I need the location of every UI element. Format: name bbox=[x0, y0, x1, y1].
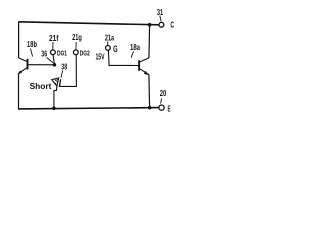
IGBT 18b bar bbox=[27, 59, 29, 70]
svg-text:18b: 18b bbox=[27, 39, 37, 49]
terminal DG1 circle (21f) bbox=[51, 50, 56, 55]
wire node 36 up to terminal DG1 bbox=[53, 55, 54, 65]
node junction dot on emitter rail left bbox=[52, 107, 56, 111]
terminal E circle bbox=[159, 105, 164, 110]
wire base of 18b to node 36 bbox=[28, 64, 54, 66]
svg-text:21f: 21f bbox=[49, 33, 59, 43]
wire DG2 down and left to short element bbox=[60, 55, 77, 87]
svg-text:Short: Short bbox=[30, 81, 52, 91]
IGBT 18a bar bbox=[138, 60, 140, 71]
svg-text:31: 31 bbox=[157, 7, 163, 17]
leader line for 18b bbox=[31, 49, 33, 57]
svg-text:21g: 21g bbox=[72, 33, 82, 42]
svg-text:21a: 21a bbox=[105, 33, 114, 43]
IGBT 18b collector diagonal bbox=[19, 58, 28, 62]
terminal G circle (21a) bbox=[106, 46, 111, 51]
IGBT 18a collector diagonal bbox=[139, 58, 149, 62]
leader line for 20 bbox=[161, 99, 162, 104]
wire bottom emitter rail bbox=[18, 108, 159, 109]
IGBT 18b emitter diagonal with arrow bbox=[18, 67, 28, 74]
svg-text:G: G bbox=[113, 44, 118, 54]
terminal C circle bbox=[159, 22, 164, 27]
leader line for 21a bbox=[107, 42, 109, 46]
svg-text:DG1: DG1 bbox=[57, 51, 67, 58]
wire right emitter drop bbox=[148, 74, 151, 107]
wire top collector rail bbox=[19, 22, 159, 25]
IGBT 18a emitter diagonal with arrow bbox=[139, 68, 149, 75]
svg-text:C: C bbox=[170, 20, 174, 29]
svg-text:36: 36 bbox=[41, 49, 47, 59]
terminal DG2 circle (21g) bbox=[73, 50, 78, 55]
wire G terminal down to base of 18a bbox=[108, 51, 138, 66]
node junction dot on emitter rail right bbox=[148, 106, 152, 110]
wire right collector drop bbox=[148, 25, 151, 58]
leader line for 31 bbox=[160, 16, 161, 22]
svg-text:20: 20 bbox=[160, 88, 167, 98]
node junction dot on collector rail bbox=[148, 23, 152, 27]
svg-text:38: 38 bbox=[61, 62, 67, 72]
wire short element down to emitter rail bbox=[54, 86, 57, 108]
svg-text:18a: 18a bbox=[130, 42, 140, 52]
svg-text:E: E bbox=[168, 103, 171, 113]
short-fault diode element 38: cathode bar bbox=[59, 79, 60, 87]
leader line for 21g bbox=[75, 42, 77, 49]
leader line for 36 bbox=[47, 58, 54, 63]
leader line for 38 bbox=[61, 71, 63, 78]
svg-text:15V: 15V bbox=[96, 51, 105, 61]
short-fault diode element 38: hatched triangle bbox=[52, 78, 59, 86]
svg-text:DG2: DG2 bbox=[80, 51, 90, 58]
leader line for 21f bbox=[52, 42, 54, 49]
wire left emitter drop bbox=[18, 74, 20, 110]
wire left collector drop (IGBT 18b collector) bbox=[18, 21, 20, 58]
leader line for 18a bbox=[131, 52, 133, 58]
node 36 junction dot bbox=[53, 63, 57, 67]
